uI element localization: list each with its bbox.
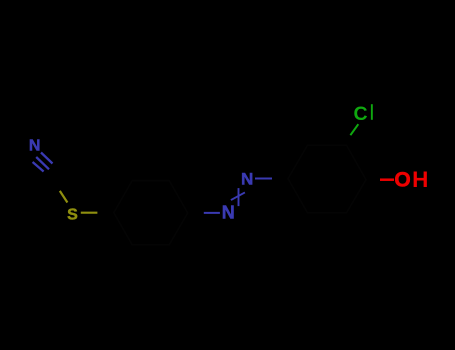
benzene ring 2 (right, carbon skeleton, near-invisible) [288, 145, 366, 213]
bond ring2-O (oxygen half, red) [380, 178, 394, 181]
svg-text:C: C [354, 103, 368, 125]
svg-text:H: H [412, 167, 428, 192]
svg-text:N: N [222, 202, 235, 222]
svg-text:N: N [29, 138, 41, 155]
bond S-C (sulfur half, yellow) [60, 191, 68, 203]
bond N2-ring2 (blue) [255, 178, 272, 180]
atom Cl (chlorine), letter l [371, 104, 373, 120]
bond S-ring1 (yellow) [81, 212, 98, 214]
bond ring2-Cl (chlorine half, green) [350, 124, 358, 135]
double bond N1=N2 (crossed style, vertical stroke) [238, 188, 240, 206]
bond ring1-N1 (azo, blue half) [204, 212, 220, 214]
triple bond C#N (three blue strokes) [33, 153, 53, 172]
svg-text:S: S [67, 207, 78, 224]
benzene ring 1 (left, carbon skeleton, near-invisible) [114, 181, 188, 245]
double bond N1=N2 (crossed style, shallow stroke) [231, 192, 245, 200]
svg-text:N: N [241, 169, 253, 188]
svg-text:O: O [394, 168, 410, 191]
